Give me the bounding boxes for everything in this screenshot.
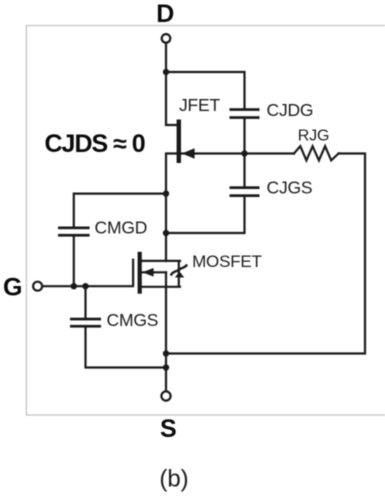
- capacitor CMGD: [58, 227, 90, 237]
- junction mid node lower: [163, 230, 169, 236]
- terminal G: [33, 282, 42, 291]
- svg-text:CMGD: CMGD: [95, 218, 148, 238]
- svg-text:RJG: RJG: [298, 128, 329, 145]
- capacitor CJDG: [230, 108, 260, 119]
- svg-text:MOSFET: MOSFET: [192, 252, 262, 271]
- wire G to MOSFET gate: [42, 285, 133, 287]
- junction D node: [163, 69, 169, 75]
- wire mid node to CMGD: [74, 194, 166, 227]
- wire G to CMGS: [84, 286, 86, 318]
- svg-text:(b): (b): [159, 466, 188, 493]
- svg-text:G: G: [3, 273, 22, 301]
- wire gate node to CJGS: [243, 154, 245, 187]
- junction S-CMGS: [163, 364, 169, 370]
- wire RJG to right rail down to S node: [166, 154, 365, 354]
- wire JFET gate to RJG: [181, 152, 294, 154]
- svg-text:JFET: JFET: [179, 95, 221, 115]
- wire JFET source down: [166, 154, 177, 262]
- junction S-rail: [163, 350, 169, 356]
- wire MOSFET source down to S: [165, 272, 167, 391]
- capacitor CMGS: [70, 318, 101, 328]
- wire D node to CJDG: [166, 72, 245, 108]
- wire CJDG to gate node: [243, 119, 245, 154]
- wire CMGD to G rail: [73, 237, 75, 287]
- svg-text:CJDG: CJDG: [267, 100, 314, 120]
- wire D down to JFET drain: [166, 43, 177, 125]
- terminal S: [161, 391, 170, 400]
- transistor JFET: [177, 120, 195, 164]
- svg-text:CJGS: CJGS: [267, 178, 313, 198]
- svg-text:CJDS ≈ 0: CJDS ≈ 0: [45, 130, 145, 158]
- junction G-CMGD: [71, 283, 77, 289]
- svg-text:CMGS: CMGS: [107, 310, 159, 330]
- wire CMGS to S rail: [86, 328, 167, 368]
- junction G-CMGS: [82, 283, 88, 289]
- svg-text:D: D: [156, 0, 174, 28]
- resistor RJG: [294, 146, 339, 160]
- junction mid node upper: [163, 190, 169, 196]
- terminal D: [162, 34, 171, 43]
- transistor MOSFET: [132, 252, 186, 294]
- junction gate node: [241, 150, 247, 156]
- svg-text:S: S: [160, 415, 177, 443]
- capacitor CJGS: [230, 186, 260, 197]
- wire CJGS to mid node: [166, 197, 245, 233]
